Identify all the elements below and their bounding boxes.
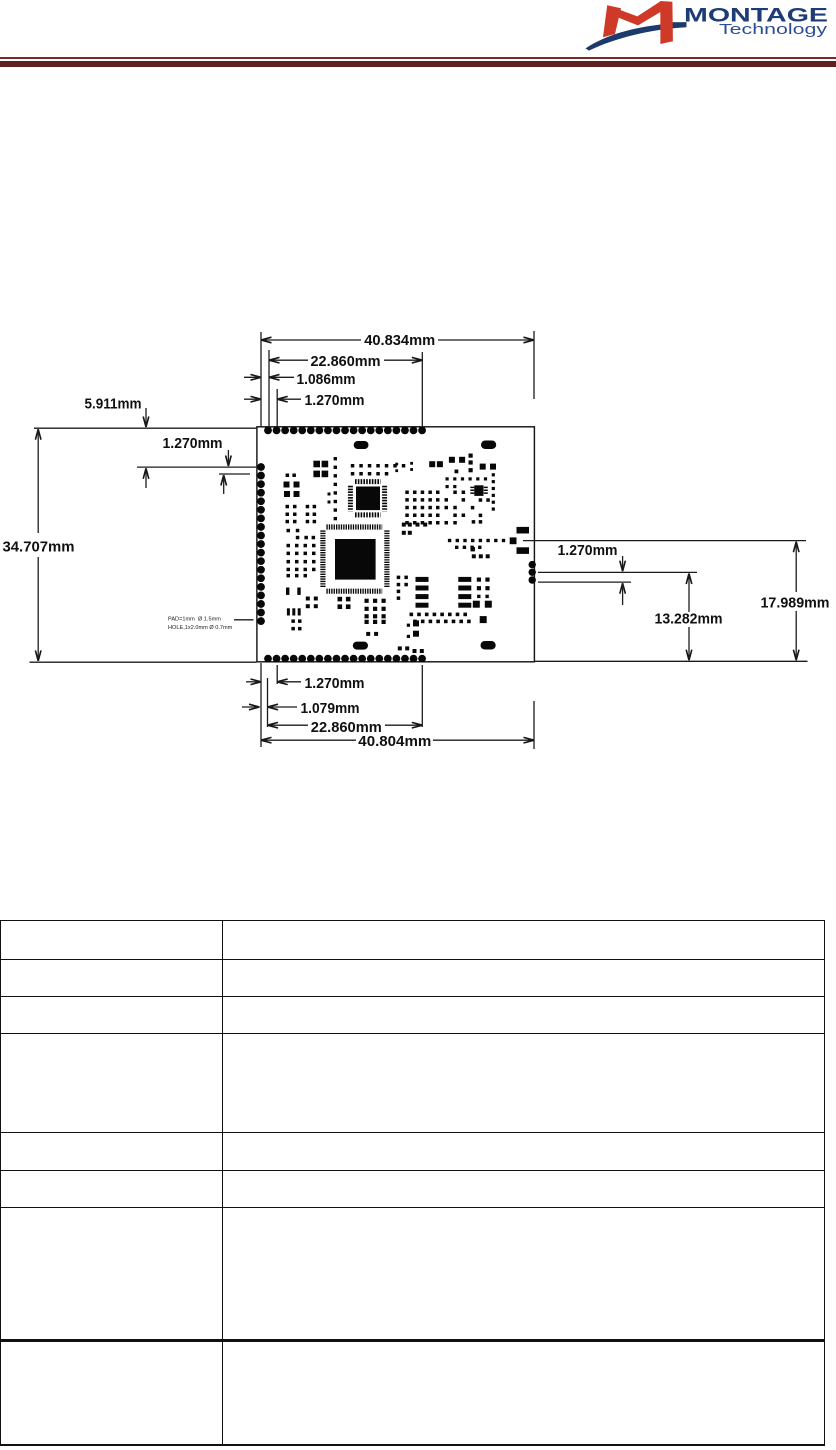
bottom pad row P2: [264, 655, 426, 663]
dimension 1.270mm top: [251, 396, 262, 402]
spec table: [0, 920, 825, 921]
svg-text:17.989mm: 17.989mm: [761, 594, 830, 611]
header thin rule: [0, 57, 836, 59]
top-left edge extension: [34, 427, 257, 429]
svg-text:PAD=1mm Ø 1.5mm: PAD=1mm Ø 1.5mm: [168, 617, 221, 623]
fiducial F3 bottom-left: [353, 642, 368, 650]
dimension 22.860mm: [270, 359, 308, 361]
left pad column P3: [257, 463, 265, 625]
svg-text:Technology: Technology: [719, 21, 828, 38]
IC U3 small soic: [474, 485, 483, 496]
svg-text:1.079mm: 1.079mm: [301, 700, 360, 717]
svg-text:13.282mm: 13.282mm: [655, 610, 723, 627]
extension lines bottom: [260, 663, 262, 747]
right side reference lines: [523, 540, 806, 542]
header thick rule: [0, 61, 836, 67]
logo M vee: [608, 1, 670, 25]
bottom-left edge extension: [30, 661, 257, 663]
dimension 40.834mm: [262, 339, 361, 341]
svg-text:34.707mm: 34.707mm: [3, 539, 75, 556]
extension lines top: [260, 332, 262, 426]
fiducial F4 bottom-right: [481, 641, 496, 650]
svg-text:22.860mm: 22.860mm: [311, 353, 381, 370]
top pad row P1: [264, 427, 426, 435]
svg-text:5.911mm: 5.911mm: [85, 396, 142, 413]
right pad group P4: [529, 561, 536, 584]
dimension 1.086mm: [251, 375, 262, 381]
dimension 1.270mm bottom: [251, 679, 262, 685]
logo underline dash: [668, 22, 687, 27]
PCB board outline: [257, 427, 535, 662]
dimension 13.282mm: [686, 574, 692, 585]
fiducial F2 top-right: [481, 441, 496, 450]
svg-text:40.834mm: 40.834mm: [364, 332, 435, 349]
svg-text:40.804mm: 40.804mm: [358, 733, 431, 750]
dimension 1.079mm: [249, 704, 260, 710]
svg-text:HOLE,1x2.0mm Ø 0.7mm: HOLE,1x2.0mm Ø 0.7mm: [168, 625, 233, 631]
svg-text:1.270mm: 1.270mm: [305, 675, 365, 692]
IC U1 pins: [323, 527, 387, 591]
logo M right leg: [660, 1, 673, 44]
IC U1 body: [335, 539, 376, 580]
fiducial F1 top-left: [354, 441, 369, 449]
svg-text:1.270mm: 1.270mm: [305, 392, 365, 409]
IC U2 body: [356, 487, 380, 511]
IC U2 pins: [350, 482, 384, 515]
logo swoosh: [586, 22, 687, 50]
dimension 40.804mm: [262, 739, 356, 741]
component pad scatter: [284, 454, 530, 654]
Montage Technology logo: [580, 0, 836, 58]
svg-text:1.086mm: 1.086mm: [297, 371, 356, 388]
svg-text:1.270mm: 1.270mm: [558, 542, 618, 559]
dimension 17.989mm: [793, 542, 799, 553]
logo M left leg: [603, 5, 621, 37]
dimension 22.860mm bottom: [268, 724, 308, 726]
svg-text:1.270mm: 1.270mm: [163, 435, 223, 452]
